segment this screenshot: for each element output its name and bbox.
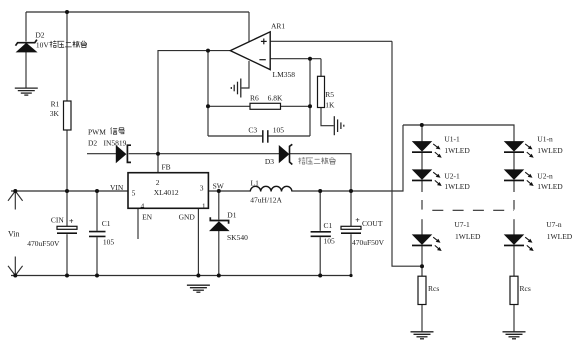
svg-text:10V: 10V	[36, 41, 50, 50]
svg-text:4: 4	[141, 202, 145, 211]
svg-text:R5: R5	[325, 90, 334, 99]
svg-text:U1-n: U1-n	[537, 135, 553, 144]
svg-text:3K: 3K	[50, 109, 60, 118]
svg-text:XL4012: XL4012	[154, 188, 179, 197]
svg-text:U2-n: U2-n	[537, 171, 553, 180]
svg-text:R1: R1	[51, 99, 60, 108]
svg-text:+: +	[355, 216, 360, 225]
svg-text:FB: FB	[162, 163, 171, 172]
svg-text:Vin: Vin	[8, 230, 20, 239]
svg-text:1WLED: 1WLED	[537, 146, 563, 155]
svg-text:1: 1	[202, 202, 206, 211]
svg-text:C1: C1	[102, 219, 111, 228]
svg-text:47uH/12A: 47uH/12A	[250, 195, 282, 204]
svg-text:2: 2	[156, 178, 160, 187]
svg-text:Rcs: Rcs	[428, 284, 439, 293]
svg-text:EN: EN	[142, 212, 153, 221]
svg-text:+: +	[69, 217, 74, 226]
svg-text:U7-1: U7-1	[454, 220, 470, 229]
svg-text:105: 105	[103, 238, 115, 247]
svg-text:3: 3	[200, 184, 204, 193]
svg-text:D2: D2	[35, 31, 44, 40]
svg-text:1WLED: 1WLED	[547, 232, 573, 241]
svg-text:105: 105	[324, 237, 336, 246]
svg-text:1K: 1K	[325, 101, 335, 110]
svg-text:R6: R6	[250, 94, 259, 103]
svg-text:D1: D1	[227, 211, 236, 220]
svg-text:1WLED: 1WLED	[444, 146, 470, 155]
svg-text:SW: SW	[213, 182, 225, 191]
svg-text:C3: C3	[248, 126, 257, 135]
svg-text:U7-n: U7-n	[546, 220, 562, 229]
svg-text:LM358: LM358	[273, 70, 296, 79]
svg-text:PWM: PWM	[88, 127, 106, 136]
svg-text:U2-1: U2-1	[444, 171, 460, 180]
svg-text:5: 5	[132, 189, 136, 198]
svg-text:AR1: AR1	[271, 22, 285, 31]
svg-text:CIN: CIN	[51, 216, 65, 225]
svg-text:1WLED: 1WLED	[455, 232, 481, 241]
svg-text:VIN: VIN	[110, 183, 124, 192]
svg-text:470uF50V: 470uF50V	[27, 239, 60, 248]
svg-text:470uF50V: 470uF50V	[352, 238, 385, 247]
svg-text:C1: C1	[324, 221, 333, 230]
svg-text:SK540: SK540	[227, 233, 248, 242]
svg-text:1WLED: 1WLED	[537, 182, 563, 191]
svg-text:GND: GND	[179, 212, 196, 221]
svg-text:6.8K: 6.8K	[268, 94, 283, 103]
svg-text:L1: L1	[251, 178, 260, 187]
svg-text:1WLED: 1WLED	[444, 182, 470, 191]
svg-text:105: 105	[273, 126, 285, 135]
svg-text:IN5819: IN5819	[104, 138, 127, 147]
svg-text:Rcs: Rcs	[520, 284, 531, 293]
svg-text:U1-1: U1-1	[444, 135, 460, 144]
svg-text:COUT: COUT	[362, 219, 383, 228]
svg-text:D2: D2	[88, 138, 97, 147]
svg-text:D3: D3	[265, 157, 274, 166]
